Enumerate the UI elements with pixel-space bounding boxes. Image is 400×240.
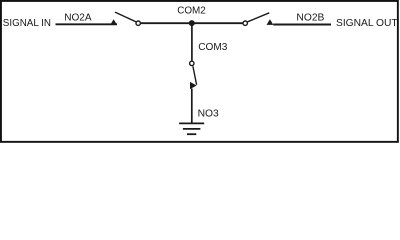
wire COM2 node down to NO3 switch bbox=[191, 23, 193, 61]
switch NO2B NO contact triangle bbox=[267, 19, 274, 25]
svg-text:COM2: COM2 bbox=[177, 4, 206, 16]
svg-text:NO2B: NO2B bbox=[296, 11, 324, 23]
wire signal-in to NO2A contact bbox=[56, 23, 118, 25]
wire NO3 switch down to ground bbox=[191, 89, 193, 123]
switch NO2A NO contact triangle bbox=[110, 19, 117, 25]
svg-text:NO2A: NO2A bbox=[64, 11, 91, 23]
svg-text:SIGNAL IN: SIGNAL IN bbox=[3, 17, 51, 29]
switch NO2A COM contact circle bbox=[136, 21, 140, 25]
wire COM2 bus bbox=[141, 22, 243, 24]
switch NO2B COM contact circle bbox=[243, 21, 247, 25]
node COM2 junction dot bbox=[189, 20, 195, 26]
ground bbox=[179, 123, 204, 134]
svg-text:COM3: COM3 bbox=[198, 41, 227, 53]
switch NO2A blade bbox=[115, 12, 136, 22]
svg-text:SIGNAL OUT: SIGNAL OUT bbox=[336, 17, 398, 29]
switch NO2B blade bbox=[248, 13, 270, 22]
switch NO3 blade bbox=[193, 66, 197, 85]
switch NO3 COM contact circle bbox=[190, 61, 194, 65]
switch NO3 NO contact triangle bbox=[190, 82, 197, 89]
wire NO2B contact to signal-out bbox=[273, 24, 331, 26]
svg-text:NO3: NO3 bbox=[198, 107, 219, 119]
